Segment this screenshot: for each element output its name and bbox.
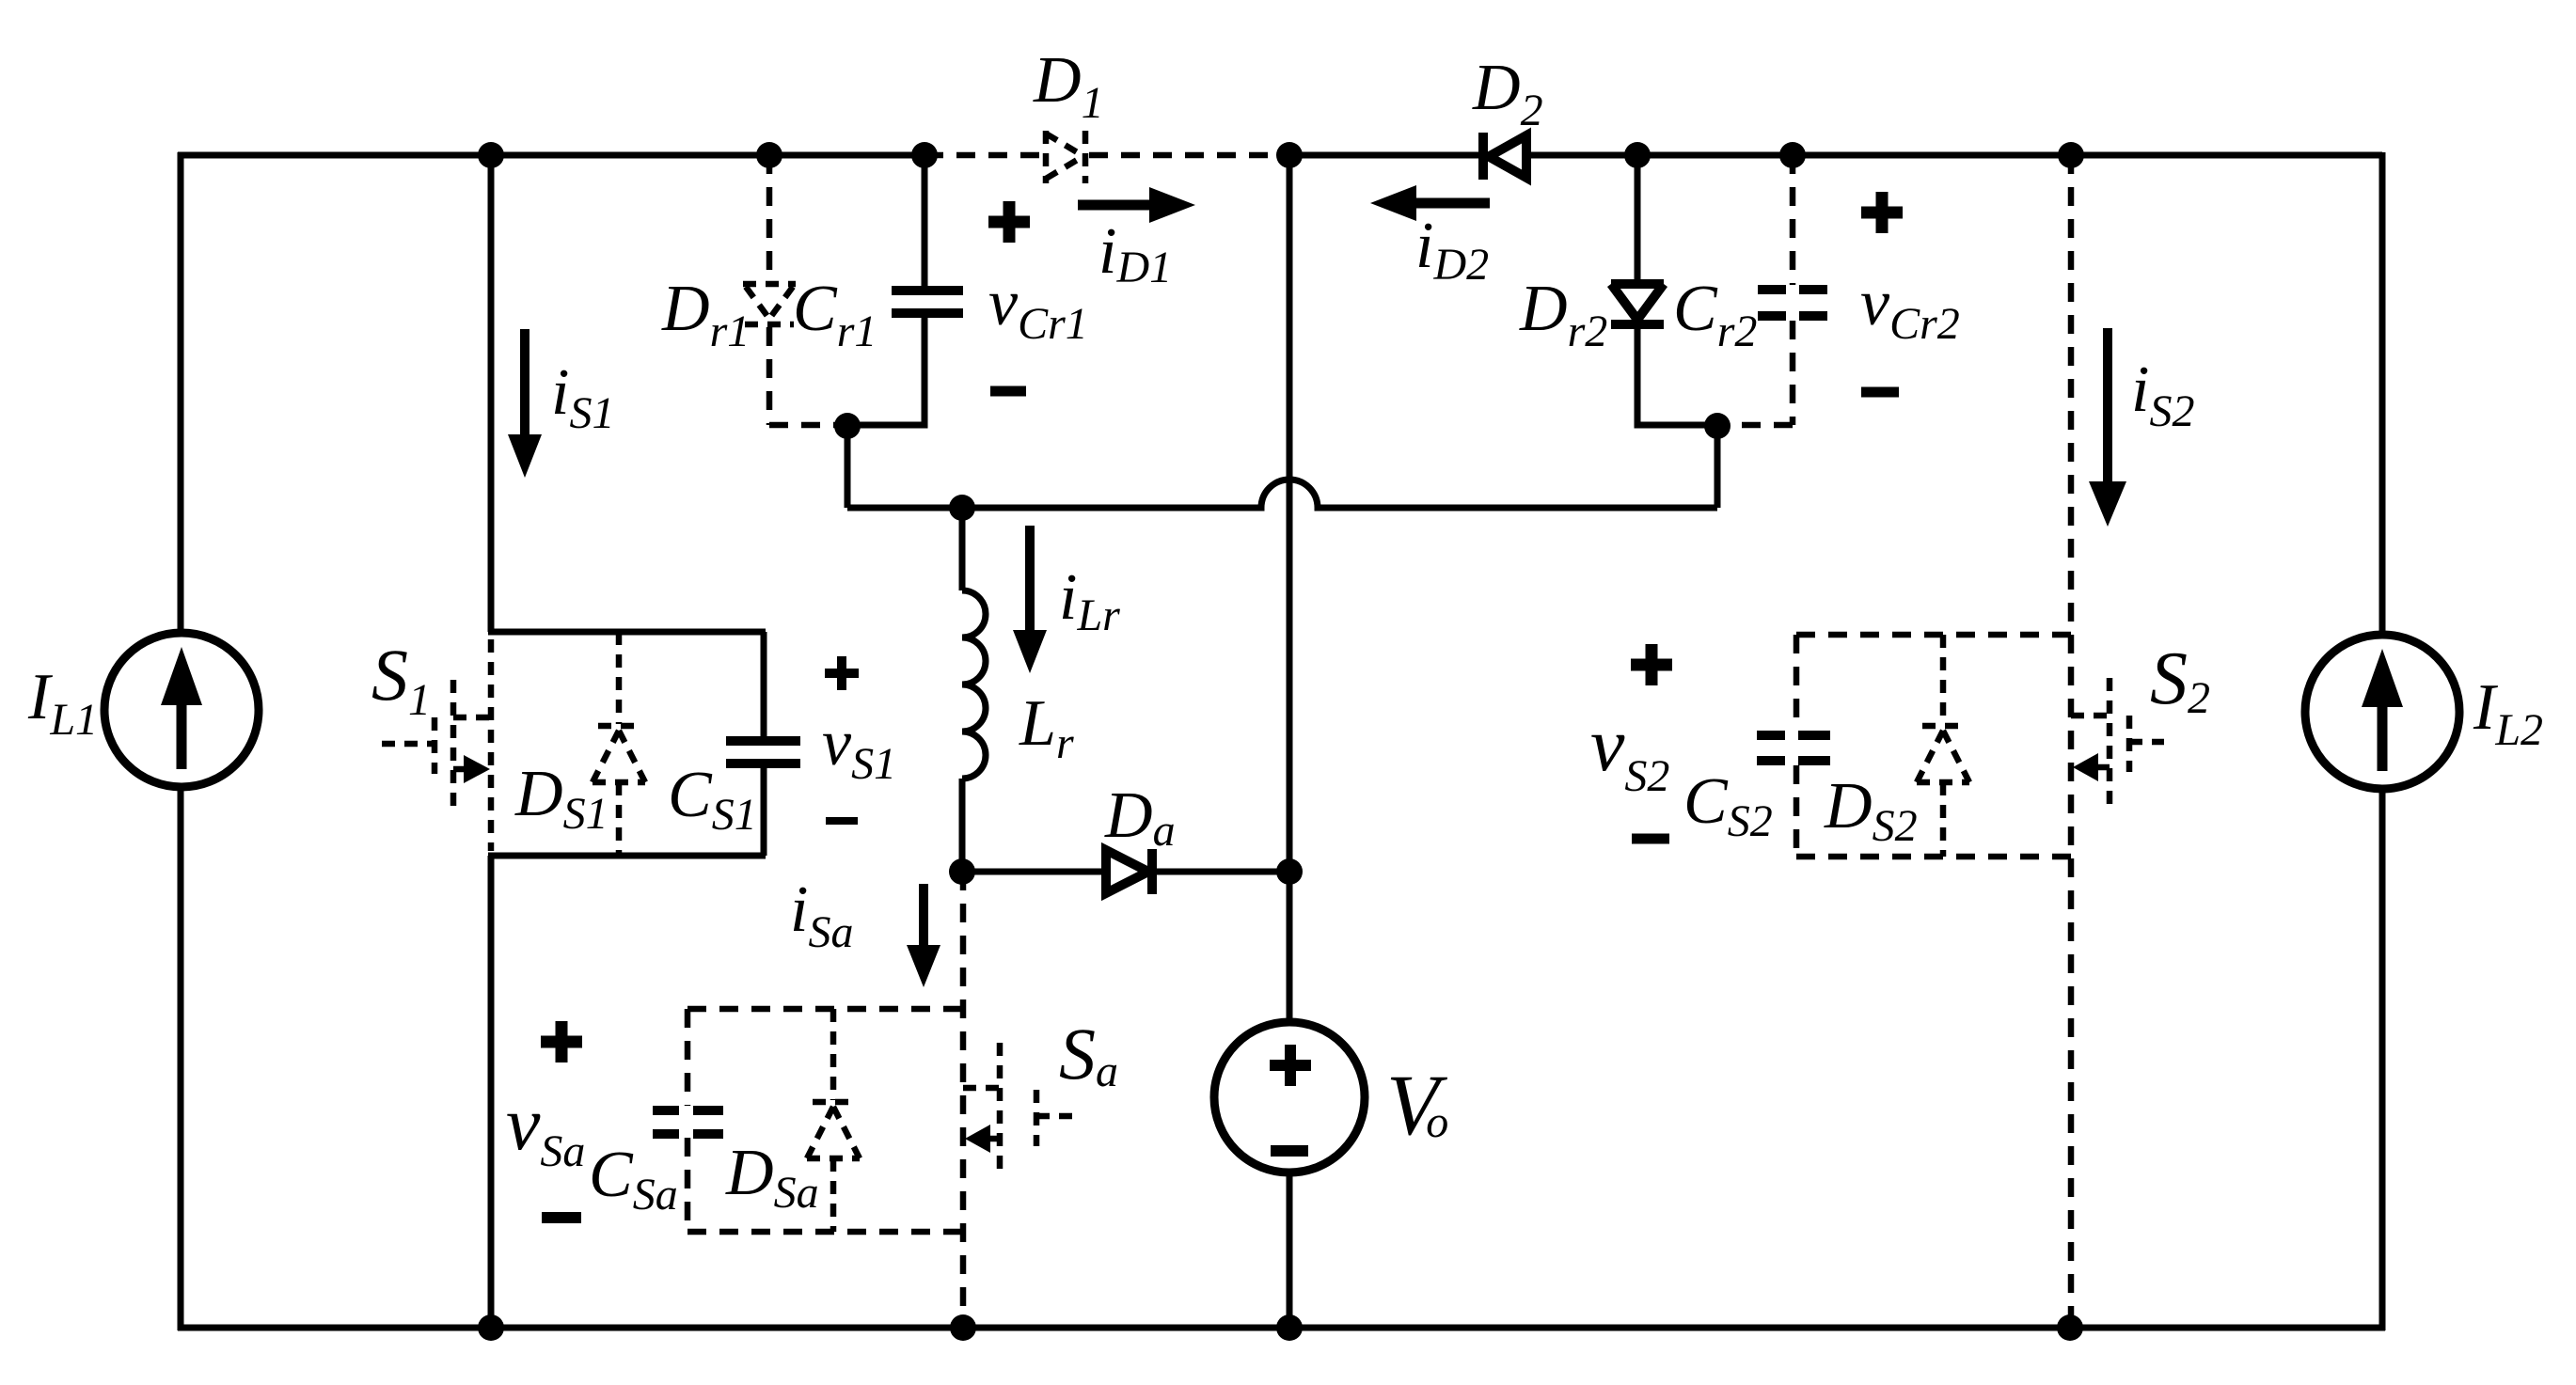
- wire Da left: [962, 869, 1106, 875]
- wire left outer bottom: [178, 787, 184, 1330]
- label iLr: [1059, 561, 1120, 640]
- arrow iS2: [2089, 328, 2126, 527]
- label iSa: [790, 873, 853, 957]
- diode DS2 (dashed): [1917, 635, 1969, 857]
- wire right outer bottom: [2379, 789, 2386, 1330]
- transistor S1 (dashed MOSFET): [382, 639, 491, 851]
- label vS2: [1590, 701, 1669, 801]
- label Sa: [1059, 1013, 1118, 1096]
- diode Dr2: [1611, 155, 1717, 425]
- transistor S2 (dashed MOSFET): [2071, 678, 2164, 804]
- wire S2 snubber box top: [1796, 632, 2071, 638]
- capacitor Cr2 (dashed): [1717, 155, 1827, 425]
- label Vo: [1386, 1057, 1448, 1153]
- node top S2: [2058, 142, 2084, 168]
- label Da: [1104, 779, 1176, 856]
- transistor Sa (dashed MOSFET): [963, 1043, 1080, 1169]
- wire S2 branch dashed: [2068, 155, 2075, 1328]
- wire top rail dashed D1 net: [925, 152, 1289, 159]
- label iD1: [1098, 215, 1172, 292]
- label vCr1 minus: [990, 386, 1026, 397]
- label vS1: [822, 707, 896, 789]
- arrow iS1: [508, 329, 542, 478]
- diode DS1 (dashed body diode): [593, 632, 645, 856]
- node bottom Vo: [1276, 1314, 1303, 1341]
- node top Dr2: [1624, 142, 1651, 168]
- current source IL2: [2305, 635, 2459, 789]
- label Dr1: [661, 273, 750, 356]
- wire Da right: [1152, 869, 1289, 875]
- label CSa: [589, 1139, 678, 1220]
- label DS1: [514, 758, 608, 839]
- node Cr2 bottom junction: [1704, 413, 1731, 439]
- capacitor CS2 (dashed): [1757, 635, 1830, 857]
- label vCr1 plus: [988, 201, 1030, 243]
- label Cr2: [1673, 273, 1757, 356]
- wire bottom rail: [178, 1325, 2385, 1331]
- label vCr1: [988, 267, 1088, 349]
- arrow iD2: [1370, 185, 1490, 221]
- node Lr bottom: [949, 858, 975, 885]
- wire top rail right segment: [1528, 152, 2382, 159]
- capacitor Cr1: [847, 155, 963, 425]
- label CS2: [1683, 765, 1773, 846]
- label S1: [371, 634, 431, 725]
- arrow iLr: [1013, 526, 1047, 673]
- node bottom S1: [478, 1314, 504, 1341]
- label D2: [1472, 52, 1543, 135]
- wire S1 source drop to bottom rail: [488, 856, 495, 1328]
- label vSa plus: [541, 1021, 582, 1062]
- wire Vo to bottom rail: [1287, 1173, 1293, 1328]
- arrow iD1: [1078, 187, 1195, 223]
- wire Sa snubber box top: [687, 1006, 963, 1013]
- label DSa: [725, 1137, 819, 1218]
- label Dr2: [1519, 273, 1607, 356]
- diode Dr1 (dashed): [743, 155, 847, 425]
- label iD2: [1415, 210, 1489, 290]
- label DS2: [1824, 770, 1918, 851]
- wire Cr junction drop left: [845, 425, 851, 508]
- capacitor CS1: [726, 632, 800, 856]
- diode D2: [1483, 133, 1526, 180]
- node top center: [1276, 142, 1303, 168]
- node top Cr1: [911, 142, 938, 168]
- wire right outer top: [2379, 152, 2386, 635]
- label iS1: [551, 356, 614, 438]
- label vS2 plus: [1631, 644, 1672, 685]
- wire Cr junction drop right: [1715, 425, 1721, 508]
- label S2: [2150, 637, 2210, 723]
- label vSa minus: [542, 1212, 581, 1223]
- arrow iSa: [907, 884, 940, 987]
- node bottom Sa: [950, 1314, 976, 1341]
- label vSa: [506, 1080, 585, 1176]
- wire left outer top: [178, 152, 184, 633]
- node top Cr2: [1779, 142, 1806, 168]
- label iS2: [2131, 354, 2194, 436]
- node Lr top: [949, 495, 975, 521]
- node Cr1 bottom junction: [834, 413, 861, 439]
- label vCr2 minus: [1861, 387, 1899, 398]
- voltage source Vo: [1214, 1022, 1365, 1173]
- label IL1: [27, 661, 98, 745]
- label vCr2 plus: [1861, 192, 1903, 233]
- label vS2 minus: [1632, 834, 1669, 844]
- node top Dr1: [756, 142, 782, 168]
- label CS1: [668, 759, 757, 840]
- label vS1 plus: [825, 656, 859, 690]
- wire mid bus with hump: [847, 480, 1717, 508]
- current source IL1: [104, 633, 259, 787]
- wire Sa snubber box bottom: [687, 1229, 963, 1235]
- wire Sa branch dashed: [960, 872, 967, 1328]
- wire top rail center to D2: [1289, 152, 1482, 159]
- wire S1 block top: [488, 629, 766, 636]
- label Cr1: [793, 273, 877, 356]
- diode D1 (dashed): [1046, 131, 1085, 183]
- capacitor CSa (dashed): [653, 1009, 723, 1232]
- node bottom S2: [2057, 1314, 2083, 1341]
- label vCr2: [1860, 267, 1960, 349]
- wire top rail left segment: [178, 152, 925, 159]
- wire S1 branch drop: [488, 155, 495, 632]
- diode Da: [1106, 849, 1152, 894]
- label IL2: [2473, 671, 2543, 755]
- node Da center: [1276, 858, 1303, 885]
- diode DSa (dashed): [807, 1009, 860, 1232]
- wire S1 block bottom: [488, 853, 766, 859]
- wire center vertical: [1287, 155, 1293, 1022]
- label Lr: [1019, 687, 1074, 768]
- label vS1 minus: [826, 817, 858, 825]
- wire S2 snubber box bottom: [1796, 854, 2071, 860]
- label D1: [1033, 44, 1104, 128]
- inductor Lr: [962, 508, 986, 872]
- node top S1: [478, 142, 504, 168]
